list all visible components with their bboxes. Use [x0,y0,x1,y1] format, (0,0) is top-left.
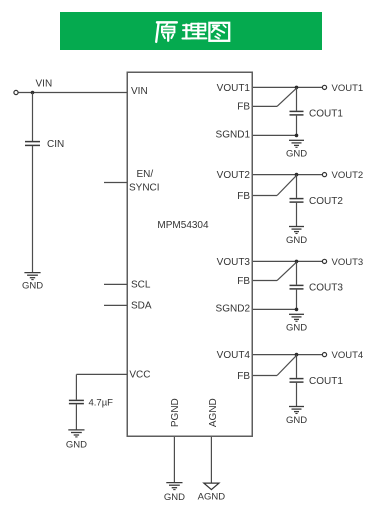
svg-text:EN/: EN/ [137,169,154,180]
svg-text:SGND1: SGND1 [216,130,251,141]
svg-text:VOUT2: VOUT2 [217,170,251,181]
svg-text:AGND: AGND [208,398,219,427]
svg-text:VOUT2: VOUT2 [332,170,364,181]
svg-text:PGND: PGND [170,398,181,427]
svg-text:GND: GND [286,235,307,246]
svg-text:VIN: VIN [36,78,53,89]
svg-text:SYNCI: SYNCI [129,182,160,193]
svg-text:SGND2: SGND2 [216,304,251,315]
svg-text:COUT1: COUT1 [309,109,343,120]
svg-text:COUT1: COUT1 [309,376,343,387]
svg-text:COUT2: COUT2 [309,196,343,207]
svg-text:CIN: CIN [47,139,64,150]
svg-text:VOUT1: VOUT1 [217,83,251,94]
svg-text:GND: GND [286,323,307,334]
svg-text:VOUT3: VOUT3 [332,257,364,268]
svg-text:AGND: AGND [198,491,226,502]
svg-text:FB: FB [237,102,250,113]
svg-text:FB: FB [237,191,250,202]
svg-text:GND: GND [22,280,43,291]
svg-text:SDA: SDA [131,301,152,312]
svg-text:MPM54304: MPM54304 [157,220,209,231]
svg-text:GND: GND [286,149,307,160]
svg-text:VOUT3: VOUT3 [217,257,251,268]
svg-text:VCC: VCC [129,370,150,381]
svg-text:VOUT4: VOUT4 [217,350,251,361]
svg-text:FB: FB [237,371,250,382]
svg-text:GND: GND [286,415,307,426]
svg-text:4.7µF: 4.7µF [89,398,114,409]
svg-text:FB: FB [237,276,250,287]
svg-text:VOUT1: VOUT1 [332,83,364,94]
svg-text:COUT3: COUT3 [309,283,343,294]
svg-text:VIN: VIN [131,86,148,97]
svg-text:VOUT4: VOUT4 [332,350,364,361]
svg-text:SCL: SCL [131,280,151,291]
svg-text:GND: GND [66,439,87,450]
svg-text:GND: GND [164,492,185,503]
